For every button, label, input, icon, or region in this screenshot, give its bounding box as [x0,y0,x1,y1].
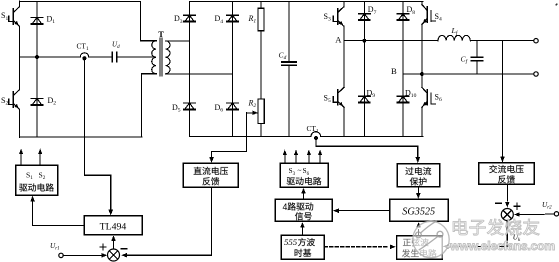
wire: rectifier left leg [189,2,191,137]
wire: primary bottom lead [142,74,157,137]
wire: D1 D2 freewheel branch [36,2,38,138]
diode D3 [184,15,195,21]
wire: Ur1 to summing junction 1 [63,254,103,256]
wire: R2 wiper [247,112,258,114]
wire: overcurrent to SG3525 [417,187,419,194]
capacitor Cd branch bottom [288,65,290,136]
wire: 555 to sine generator (dashed) [324,246,389,248]
wire: AC feedback to summing junction 2 [506,184,508,201]
transistor S5 [333,87,344,107]
transistor S3 [333,7,344,27]
speck top right corner [556,4,558,6]
wire: DC bus top rail [190,1,423,3]
svg-text:SG3525: SG3525 [402,206,435,217]
wire: CT1 feedback to TL494 [84,59,110,211]
wire: inverter leg 4 [421,2,423,5]
capacitor Cd [282,61,297,63]
block: 555 square wave timebase box [281,235,324,259]
transistor S2 [9,90,20,110]
wire: S1 collector to rail [19,1,21,7]
current transformer CT1 hump [80,53,89,57]
wire: DC bus bottom rail right [321,136,423,138]
diode D4 [227,15,238,21]
diode D7 [359,14,370,20]
output terminal top [534,39,538,43]
svg-text:555: 555 [284,237,298,247]
diode D9 [359,96,370,102]
wire: CT to overcurrent protection [316,139,418,157]
transistor S4 [422,5,436,25]
block: 4-way drive signal box [275,199,332,221]
transistor S6 [422,87,436,107]
wire: left bridge top rail [20,1,141,3]
diode D1 [31,18,42,24]
svg-text:T: T [158,30,164,39]
diode D2 [31,99,42,105]
svg-text:A: A [335,34,342,44]
wire: left bridge midpoint rail S1-S2 [19,26,21,90]
block: DC voltage feedback box [183,163,238,187]
wire: R1 to R2 [260,31,262,99]
drive signal arrows to S1 S2 [20,153,22,165]
diode D10 [397,96,408,102]
svg-text:-www.elecfans.com: -www.elecfans.com [447,239,556,253]
node: bridge midpoint junction [35,55,39,59]
wire: primary top lead [141,2,157,41]
block: S1 S2 drive circuit box [16,165,58,195]
wire: S2 emitter to bottom rail [19,109,21,137]
transformer T primary winding [152,41,157,74]
block: AC voltage feedback box [479,163,535,184]
wire: 555 to 4-way drive box [301,228,303,235]
wire: DC feedback to summing junction 1 [126,187,212,255]
transformer T secondary winding [166,41,171,74]
label minus 2 [496,202,502,204]
svg-text:B: B [391,66,397,76]
diode D6 [227,103,238,109]
wire: inverter leg 2 (D7 D9) [363,2,365,137]
summing junction 2 [501,209,513,221]
capacitor Cf branch [476,41,478,58]
resistor R1 [260,2,262,9]
wire: summing junction 2 to sine generator [448,221,508,247]
transistor S1 [9,7,20,27]
potentiometer R2 [258,99,264,124]
wire: filter output top [470,40,534,42]
block: SG3525 box [390,199,449,221]
wire: AC feedback tap [502,41,504,157]
wire: TL494 to drive circuit [33,201,84,226]
wire: capacitor to transformer center tap [117,56,153,58]
svg-text:~: ~ [298,166,302,175]
node A wire [344,40,438,42]
wire: inverter leg 1 [343,2,345,7]
summing junction 1 [108,249,120,261]
svg-text:TL494: TL494 [100,222,127,233]
diode D5 [184,103,195,109]
wire: Ur2 to summing junction 2 [518,213,554,215]
wire: sine generator to SG3525 [418,230,420,236]
wire: DC bus bottom rail [190,136,312,138]
block: S3~S6 drive circuit box [280,163,328,187]
capacitor Cf [471,56,482,58]
wire: secondary top lead [166,40,190,42]
watermark text elecfans chinese [453,219,539,235]
wire: summing junction 1 to TL494 [113,241,115,249]
wire: secondary bottom lead [166,73,233,75]
node B wire [403,73,534,75]
wire: feedback tap from wiper to DC voltage feedback [212,113,247,157]
output terminal bottom [534,72,538,76]
wire: CT1 to capacitor Ud [89,56,113,58]
inductor Lf [438,35,470,40]
current transformer CT1 (inverter) hump [311,132,321,137]
node B junction dot [420,72,424,76]
capacitor Cd branch top [288,2,290,63]
wire: rectifier right leg [232,2,234,137]
transformer T core [159,38,161,76]
watermark logo circle [413,221,449,257]
node A junction dot [363,39,367,43]
terminal Ur2 [554,212,558,216]
capacitor Ud [111,52,113,61]
wire: inverter leg 3 (D8 D10) [402,2,404,137]
block: TL494 box [84,216,142,235]
block: overcurrent protection box [397,164,440,187]
drive signal arrows to S3-S6 [284,154,286,163]
wire: SG3525 to 4-way drive box [338,210,390,212]
watermark wash over sine box [397,237,447,259]
wire: 4-way drive to S3-S6 box [303,193,305,200]
diode D8 [397,14,408,20]
label minus 1 [121,248,127,250]
wire: midpoint wire to CT1 [20,56,81,58]
block: sine wave generator box [397,236,443,259]
label plus 1 [100,246,106,248]
wire: left bridge bottom rail [20,136,142,138]
label plus 2 [514,205,520,207]
svg-text:4: 4 [283,202,288,212]
terminal Ur1 [59,253,63,257]
